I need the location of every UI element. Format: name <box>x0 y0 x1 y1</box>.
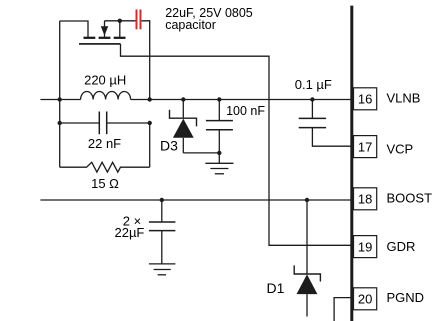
node 100nF top dot <box>217 97 221 101</box>
node 100nF bottom dot <box>217 151 221 155</box>
node D3 top dot <box>181 97 185 101</box>
node rail right-of-inductor dot <box>148 97 152 101</box>
capacitor C3 100nF <box>206 100 233 153</box>
node 22nF left dot <box>58 121 62 125</box>
svg-text:D3: D3 <box>160 138 178 154</box>
svg-text:22µF: 22µF <box>114 225 144 240</box>
svg-text:100 nF: 100 nF <box>226 104 265 118</box>
diode D3 zener <box>170 100 197 153</box>
pin 18 box <box>354 188 377 210</box>
wire mosfet source top <box>60 21 88 38</box>
svg-text:GDR: GDR <box>387 239 416 254</box>
label 2 x 22uF <box>114 214 144 240</box>
svg-text:20: 20 <box>358 292 372 307</box>
svg-text:0.1 µF: 0.1 µF <box>295 77 332 92</box>
node mosfet drain dot <box>118 19 122 23</box>
ground under 2x22uF <box>149 264 176 275</box>
wire D3 anode to 100nF bottom <box>183 152 219 154</box>
svg-text:18: 18 <box>358 192 372 207</box>
label 22uF, 25V 0805 capacitor <box>165 6 253 32</box>
wire mosfet top to red capacitor <box>105 20 136 22</box>
IC edge line <box>350 6 353 321</box>
pin 17 box <box>354 136 377 158</box>
svg-text:19: 19 <box>358 239 372 254</box>
node 2x22uF dot <box>160 198 164 202</box>
transistor Q1 MOSFET <box>79 21 126 44</box>
resistor R1 15 ohm <box>60 123 150 172</box>
capacitor C4 0.1uF <box>299 100 354 147</box>
svg-text:BOOST: BOOST <box>387 190 433 205</box>
wire red capacitor to main rail <box>142 21 150 100</box>
svg-text:PGND: PGND <box>387 290 425 305</box>
svg-text:220 µH: 220 µH <box>84 73 126 88</box>
capacitor C2 22nF plates <box>99 112 106 135</box>
svg-text:17: 17 <box>358 139 372 154</box>
wire BOOST rail <box>40 199 353 201</box>
ground under 100nF <box>205 153 233 174</box>
svg-text:16: 16 <box>358 92 372 107</box>
wire PGND <box>334 298 353 321</box>
svg-text:15 Ω: 15 Ω <box>91 176 119 191</box>
pin 20 box <box>354 288 377 310</box>
pin 16 box <box>354 88 377 110</box>
wire main rail VLNB node <box>40 99 353 101</box>
node 0.1uF dot <box>310 97 314 101</box>
svg-text:D1: D1 <box>267 280 285 296</box>
pin 19 box <box>354 236 377 258</box>
svg-text:VLNB: VLNB <box>387 90 421 105</box>
capacitor C-red 22uF 25V 0805 <box>137 10 141 30</box>
capacitor C5 2x22uF <box>149 200 176 264</box>
svg-text:VCP: VCP <box>387 142 414 157</box>
node D1 top dot <box>305 198 309 202</box>
wire left branch vertical <box>59 21 61 167</box>
svg-text:22 nF: 22 nF <box>88 136 121 151</box>
wire 22nF branch <box>60 122 150 124</box>
diode D1 zener <box>294 200 320 317</box>
node rail left dot <box>58 97 62 101</box>
svg-text:capacitor: capacitor <box>165 18 216 32</box>
wire gate to GDR <box>79 43 121 45</box>
node 22nF right dot <box>148 121 152 125</box>
inductor L1 220uH <box>81 91 131 99</box>
